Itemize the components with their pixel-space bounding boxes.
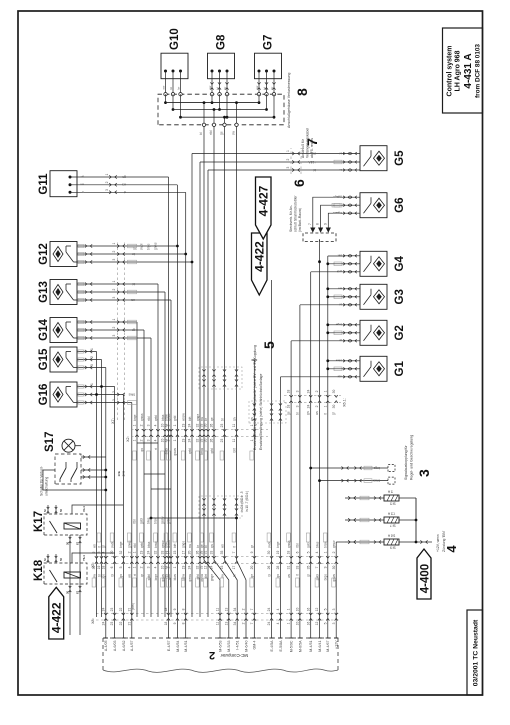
wire harness h177 xyxy=(176,185,178,617)
svg-text:16: 16 xyxy=(306,622,310,626)
wire colour labels near X5 xyxy=(92,573,336,587)
svg-text:1: 1 xyxy=(112,281,116,283)
wire G11 pin2 xyxy=(70,181,177,186)
svg-text:grbl: grbl xyxy=(167,518,171,524)
sensor G11 xyxy=(38,171,77,197)
svg-text:12: 12 xyxy=(315,622,319,626)
svg-text:gn: gn xyxy=(210,544,214,548)
ECU pin E-4/57 xyxy=(166,617,171,651)
inline connectors cluster C xyxy=(249,401,286,423)
svg-text:bl: bl xyxy=(110,574,114,577)
svg-text:9: 9 xyxy=(173,622,177,624)
svg-text:2: 2 xyxy=(112,289,116,291)
wire harness h254 xyxy=(253,360,255,617)
svg-text:2: 2 xyxy=(127,551,131,553)
svg-text:bl: bl xyxy=(339,151,342,155)
svg-text:14: 14 xyxy=(210,566,214,570)
svg-text:12: 12 xyxy=(315,608,319,612)
svg-text:18: 18 xyxy=(101,566,105,570)
ECU pin M-6/41 xyxy=(317,617,322,652)
svg-text:8: 8 xyxy=(181,622,185,624)
reference flag 4-422 mid xyxy=(252,233,268,295)
svg-text:28: 28 xyxy=(276,566,280,570)
svg-text:gnws: gnws xyxy=(154,242,158,250)
svg-text:G11: G11 xyxy=(38,173,50,195)
svg-text:sw: sw xyxy=(92,573,96,578)
svg-text:19: 19 xyxy=(140,551,144,555)
wire G5 feed 2 xyxy=(200,161,344,163)
svg-text:24: 24 xyxy=(101,608,105,612)
svg-text:SI 9: SI 9 xyxy=(390,546,396,550)
svg-text:Control system: Control system xyxy=(447,46,454,97)
pins G6 xyxy=(334,195,360,215)
wire sensor drop x420 xyxy=(77,298,171,301)
svg-text:5: 5 xyxy=(323,622,327,624)
svg-text:M-4/51: M-4/51 xyxy=(184,641,188,652)
svg-text:30: 30 xyxy=(66,591,70,594)
connector 6 dashed box xyxy=(303,233,336,241)
svg-text:1: 1 xyxy=(133,551,137,553)
svg-text:4: 4 xyxy=(315,551,319,553)
svg-text:A-6/03: A-6/03 xyxy=(113,641,117,652)
connector box G8 xyxy=(208,34,235,94)
svg-text:2: 2 xyxy=(140,424,144,426)
svg-text:M-5/33: M-5/33 xyxy=(227,641,231,652)
svg-text:gn: gn xyxy=(80,175,84,179)
svg-text:4-422: 4-422 xyxy=(253,241,267,272)
wire feed x343 xyxy=(280,376,344,378)
svg-text:E-5/8A: E-5/8A xyxy=(279,640,283,652)
svg-text:18: 18 xyxy=(287,390,291,394)
svg-text:2: 2 xyxy=(112,391,116,393)
wire harness h158 xyxy=(157,284,159,617)
title block xyxy=(443,28,483,113)
svg-text:LH Agro 968: LH Agro 968 xyxy=(455,50,462,91)
svg-text:MC-Computer: MC-Computer xyxy=(220,653,248,658)
svg-text:2: 2 xyxy=(242,622,246,624)
svg-text:30: 30 xyxy=(267,551,271,555)
switch S17 label xyxy=(44,432,56,452)
svg-text:rtbl: rtbl xyxy=(133,519,137,524)
junction box 8 dashed outline xyxy=(158,94,284,125)
svg-text:gnge: gnge xyxy=(333,195,340,199)
wire Verlustmessung h224 xyxy=(225,125,238,617)
svg-text:Signalauskopplung für: Signalauskopplung für xyxy=(404,445,408,480)
svg-text:30: 30 xyxy=(204,439,208,443)
svg-text:sw: sw xyxy=(232,130,236,135)
svg-text:21: 21 xyxy=(127,622,131,626)
wire harness h96 xyxy=(96,352,98,618)
svg-text:4: 4 xyxy=(127,566,131,568)
wire trunk 327 drops xyxy=(326,256,344,370)
wire sensor drop x352 xyxy=(77,366,106,369)
svg-text:6: 6 xyxy=(291,179,307,187)
svg-text:(im Batt.-Raum): (im Batt.-Raum) xyxy=(298,208,302,232)
svg-text:blrt: blrt xyxy=(188,416,192,421)
svg-text:ws: ws xyxy=(128,574,132,578)
svg-text:S17: S17 xyxy=(44,432,56,452)
svg-text:22: 22 xyxy=(119,608,123,612)
svg-text:03/2001 TC Neustadt: 03/2001 TC Neustadt xyxy=(473,619,480,686)
svg-text:ws: ws xyxy=(122,183,126,187)
wire harness h192 xyxy=(191,154,193,618)
svg-text:24: 24 xyxy=(188,566,192,570)
footer box xyxy=(467,610,483,695)
svg-text:6: 6 xyxy=(110,566,114,568)
label 5 xyxy=(253,341,277,450)
svg-text:8: 8 xyxy=(294,88,310,96)
ECU pin E-4/5A xyxy=(269,617,274,652)
svg-text:9: 9 xyxy=(173,608,177,610)
ECU pin E-5/8A xyxy=(278,617,283,652)
svg-text:3: 3 xyxy=(112,259,116,261)
svg-text:bl: bl xyxy=(220,418,224,421)
svg-text:3: 3 xyxy=(112,297,116,299)
svg-text:3: 3 xyxy=(147,424,151,426)
svg-text:gnge: gnge xyxy=(182,541,186,548)
svg-text:6: 6 xyxy=(296,551,300,553)
svg-text:schluß Strahlrückstoßler: schluß Strahlrückstoßler xyxy=(294,195,298,232)
wire sensor drop x368 xyxy=(77,350,97,353)
wire harness h310 xyxy=(310,272,312,617)
sensor G15 xyxy=(38,347,77,372)
pins G2 xyxy=(334,323,360,343)
svg-text:gesw: gesw xyxy=(167,413,171,421)
svg-text:2: 2 xyxy=(167,424,171,426)
svg-text:ws: ws xyxy=(315,411,319,415)
svg-text:18: 18 xyxy=(287,551,291,555)
svg-text:1: 1 xyxy=(286,150,290,152)
svg-text:bl: bl xyxy=(267,574,271,577)
svg-text:35: 35 xyxy=(306,566,310,570)
wire comb6 tail xyxy=(318,239,321,263)
sensor G13 xyxy=(38,280,77,305)
ECU pin M-4/51 xyxy=(309,617,314,652)
svg-text:9: 9 xyxy=(323,223,327,225)
svg-text:from DCF 88 0103: from DCF 88 0103 xyxy=(475,44,482,98)
sensor G1 xyxy=(360,356,406,381)
sensor G4 xyxy=(360,251,406,276)
svg-text:ge: ge xyxy=(287,411,291,415)
svg-text:3: 3 xyxy=(416,469,432,477)
svg-text:1#A: 1#A xyxy=(122,470,126,476)
svg-text:2: 2 xyxy=(140,566,144,568)
wire sensor drop x436 xyxy=(77,282,158,285)
svg-text:ge: ge xyxy=(220,131,224,135)
wire harness h327 xyxy=(327,256,329,617)
wires G6 feed via connector 6 xyxy=(308,195,344,233)
wire harness h200 xyxy=(199,162,201,617)
strip X7 designator xyxy=(111,418,115,424)
svg-text:bl: bl xyxy=(132,282,135,286)
svg-text:3: 3 xyxy=(112,335,116,337)
svg-text:br: br xyxy=(339,168,342,172)
svg-text:blws: blws xyxy=(147,541,151,548)
svg-text:14: 14 xyxy=(167,551,171,555)
svg-text:M-6/5A: M-6/5A xyxy=(298,640,302,652)
wire sensor drop x474 xyxy=(77,244,179,247)
svg-text:ab Fß. rechts: ab Fß. rechts xyxy=(310,138,314,158)
svg-text:4: 4 xyxy=(276,622,280,624)
svg-text:rtbl: rtbl xyxy=(296,543,300,548)
svg-text:(frei): (frei) xyxy=(131,603,135,610)
ECU pin A-4/05 xyxy=(104,617,109,651)
svg-text:2: 2 xyxy=(315,405,319,407)
wire colour labels right of X5 xyxy=(92,533,336,548)
svg-text:30: 30 xyxy=(332,390,336,394)
svg-text:rt: rt xyxy=(133,574,137,576)
svg-text:gesw: gesw xyxy=(332,540,336,548)
svg-text:M-6/41: M-6/41 xyxy=(318,641,322,652)
svg-text:15: 15 xyxy=(173,551,177,555)
svg-text:1: 1 xyxy=(105,174,109,176)
reference flag 4-427 xyxy=(256,177,272,239)
svg-text:rt: rt xyxy=(323,413,327,415)
wire sensor drop x398 xyxy=(77,320,137,323)
svg-text:5: 5 xyxy=(323,608,327,610)
wire harness h336 xyxy=(335,542,337,617)
svg-text:9: 9 xyxy=(323,566,327,568)
svg-text:32: 32 xyxy=(119,551,123,555)
svg-text:4-400: 4-400 xyxy=(419,564,431,593)
svg-text:24: 24 xyxy=(306,405,310,409)
svg-text:gesw: gesw xyxy=(161,516,165,524)
svg-text:brge: brge xyxy=(119,541,123,548)
svg-text:9,6 A: 9,6 A xyxy=(387,534,395,538)
svg-text:16: 16 xyxy=(306,608,310,612)
svg-text:rt: rt xyxy=(154,448,158,450)
ECU pin A-6/03 xyxy=(112,617,117,651)
switch S17 contacts xyxy=(60,446,81,482)
svg-text:3: 3 xyxy=(296,405,300,407)
svg-text:blws: blws xyxy=(128,392,135,396)
svg-text:24: 24 xyxy=(101,622,105,626)
ECU pin +12V xyxy=(334,617,339,649)
svg-text:X8:: X8: xyxy=(91,618,95,624)
svg-text:gesw: gesw xyxy=(188,573,192,581)
connector strip X8 xyxy=(96,608,341,626)
svg-text:19: 19 xyxy=(276,551,280,555)
svg-text:swbl: swbl xyxy=(147,574,151,581)
wire sensor drop x382 xyxy=(77,336,151,339)
svg-text:gnws: gnws xyxy=(173,448,177,456)
svg-text:brws: brws xyxy=(373,478,380,482)
svg-text:10: 10 xyxy=(296,608,300,612)
svg-text:3: 3 xyxy=(112,399,116,401)
svg-text:gebl: gebl xyxy=(307,542,311,548)
svg-text:24: 24 xyxy=(188,439,192,443)
svg-text:1: 1 xyxy=(112,243,116,245)
svg-text:34: 34 xyxy=(233,622,237,626)
svg-text:5: 5 xyxy=(261,341,277,349)
svg-text:Zündung 'EIN': Zündung 'EIN' xyxy=(442,530,446,552)
label in D4 xyxy=(240,491,249,512)
wire G5 feed 1 xyxy=(192,153,344,155)
svg-text:gebl: gebl xyxy=(140,518,144,524)
svg-text:G1: G1 xyxy=(394,361,406,377)
svg-text:I-4/51: I-4/51 xyxy=(236,641,240,650)
svg-text:1: 1 xyxy=(90,383,94,385)
strip X6.1 designator xyxy=(343,398,347,407)
svg-text:in 10 .7 (6/D4:): in 10 .7 (6/D4:) xyxy=(245,491,249,512)
wire harness h144 xyxy=(143,330,145,617)
svg-text:30: 30 xyxy=(332,566,336,570)
svg-text:bl: bl xyxy=(262,87,266,90)
svg-text:3: 3 xyxy=(286,167,290,169)
svg-text:blrt: blrt xyxy=(232,448,236,453)
svg-text:M-4/51: M-4/51 xyxy=(309,641,313,652)
svg-text:brge: brge xyxy=(154,574,158,581)
svg-text:gebl: gebl xyxy=(188,448,192,454)
svg-text:26: 26 xyxy=(210,424,214,428)
wire sensor drop x317 xyxy=(77,401,132,404)
svg-text:grbl: grbl xyxy=(210,448,214,454)
svg-text:32: 32 xyxy=(154,551,158,555)
ECU 2 MC-Computer dashed boundary xyxy=(103,638,338,672)
svg-text:3: 3 xyxy=(296,390,300,392)
svg-text:1: 1 xyxy=(173,439,177,441)
svg-text:18: 18 xyxy=(164,622,168,626)
svg-text:K18: K18 xyxy=(33,559,45,581)
svg-text:24: 24 xyxy=(188,424,192,428)
svg-text:A-6/52: A-6/52 xyxy=(122,641,126,652)
svg-text:rt: rt xyxy=(296,574,300,576)
svg-text:rt: rt xyxy=(82,190,84,194)
svg-text:4: 4 xyxy=(444,545,459,553)
svg-text:Verlängerungskabel: Verlängerungskabel xyxy=(306,128,310,158)
wire harness h101 xyxy=(101,360,103,618)
svg-text:G5: G5 xyxy=(394,150,406,166)
svg-text:1: 1 xyxy=(173,424,177,426)
ECU pin M-5/9C xyxy=(289,617,294,652)
svg-text:+12V: +12V xyxy=(335,640,339,649)
svg-text:M-4/67: M-4/67 xyxy=(326,641,330,652)
ECU pin M-4/67 xyxy=(326,617,331,652)
reference flag 4-400 xyxy=(417,549,431,599)
svg-text:A-4/05: A-4/05 xyxy=(104,641,108,652)
svg-text:19: 19 xyxy=(181,424,185,428)
wire harness h114 xyxy=(114,387,116,618)
svg-text:2: 2 xyxy=(105,181,109,183)
colour labels field2 xyxy=(287,411,336,415)
svg-text:gnge: gnge xyxy=(210,574,214,581)
wire feed x379 xyxy=(291,340,344,342)
svg-text:31: 31 xyxy=(204,551,208,555)
wire harness h291 xyxy=(290,341,292,617)
label 7 xyxy=(301,128,320,158)
svg-text:grbl: grbl xyxy=(173,415,177,421)
strip X2 designator xyxy=(126,436,130,442)
svg-text:33: 33 xyxy=(210,551,214,555)
svg-text:30: 30 xyxy=(66,542,70,545)
wire harness h165 xyxy=(164,292,166,617)
svg-text:1: 1 xyxy=(287,608,291,610)
svg-text:2: 2 xyxy=(90,356,94,358)
svg-text:gn: gn xyxy=(119,574,123,578)
colour labels Verlustmessung wires xyxy=(199,130,236,135)
wire sensor drop x360 xyxy=(77,358,102,361)
wire relay supply rail 30 xyxy=(69,535,71,635)
svg-text:87: 87 xyxy=(76,542,80,545)
wire harness h123 xyxy=(122,395,124,618)
svg-text:G10: G10 xyxy=(169,28,181,50)
svg-text:ws: ws xyxy=(92,544,96,548)
svg-text:17: 17 xyxy=(232,566,236,570)
svg-text:in D4 (6/D4: .5: in D4 (6/D4: .5 xyxy=(240,491,244,512)
ECU pin M-4/51 xyxy=(184,617,189,652)
svg-text:M-6/54: M-6/54 xyxy=(176,641,180,652)
svg-text:2: 2 xyxy=(167,566,171,568)
svg-text:rt: rt xyxy=(124,190,126,194)
svg-text:K17: K17 xyxy=(33,511,45,532)
svg-text:G8: G8 xyxy=(216,34,228,50)
label 6 xyxy=(289,179,307,232)
svg-text:26: 26 xyxy=(267,566,271,570)
wire feed x415 xyxy=(300,304,344,306)
svg-text:G3: G3 xyxy=(394,289,406,304)
svg-text:1: 1 xyxy=(173,566,177,568)
svg-text:bl: bl xyxy=(313,168,316,172)
svg-text:1: 1 xyxy=(323,551,327,553)
svg-text:G12: G12 xyxy=(38,243,50,265)
svg-text:swbl: swbl xyxy=(267,541,271,548)
wire Verlustmessung h204 xyxy=(204,125,220,617)
svg-text:1: 1 xyxy=(133,424,137,426)
wires S17 outputs xyxy=(81,455,107,478)
svg-text:Y6.4: Y6.4 xyxy=(82,555,86,561)
wire harness h131 xyxy=(131,403,133,618)
wire harness h280 xyxy=(279,377,281,617)
svg-text:15: 15 xyxy=(220,566,224,570)
svg-text:G7: G7 xyxy=(263,35,275,50)
svg-text:M-6/40: M-6/40 xyxy=(244,641,248,652)
svg-text:7: 7 xyxy=(232,551,236,553)
svg-text:bl: bl xyxy=(215,87,219,90)
wire jog b xyxy=(144,473,165,475)
colour labels field3 xyxy=(133,242,158,250)
connector box G10 xyxy=(161,28,188,94)
wire sensor drop x428 xyxy=(77,290,165,293)
svg-text:4: 4 xyxy=(154,424,158,426)
pins G1 xyxy=(334,359,360,379)
svg-text:2: 2 xyxy=(112,251,116,253)
wire sensor drop x333 xyxy=(77,385,115,388)
wire sensor drop x466 xyxy=(77,252,187,255)
svg-text:3: 3 xyxy=(147,566,151,568)
wire sensor drop x325 xyxy=(77,393,123,396)
label 3 xyxy=(404,435,432,480)
ECU pin GM-4 xyxy=(252,617,257,649)
wire harness h137 xyxy=(136,322,138,617)
svg-text:ge: ge xyxy=(250,574,254,578)
svg-text:SI 5: SI 5 xyxy=(390,502,396,506)
svg-text:G15: G15 xyxy=(38,348,50,370)
svg-text:gebl: gebl xyxy=(154,415,158,421)
svg-text:X6.1:: X6.1: xyxy=(343,398,347,407)
svg-text:swbl: swbl xyxy=(140,243,144,250)
svg-text:blws: blws xyxy=(173,574,177,581)
svg-text:ge: ge xyxy=(210,417,214,421)
pins G4 xyxy=(334,254,360,274)
svg-text:4-422: 4-422 xyxy=(50,602,64,633)
wire G5 feed 3 xyxy=(208,169,344,171)
svg-text:30: 30 xyxy=(204,424,208,428)
svg-text:gn: gn xyxy=(276,574,280,578)
svg-text:G4: G4 xyxy=(394,256,406,272)
svg-text:brsw: brsw xyxy=(154,517,158,524)
wire end bar xyxy=(252,359,258,361)
ECU pin M-6/5A xyxy=(298,617,303,652)
